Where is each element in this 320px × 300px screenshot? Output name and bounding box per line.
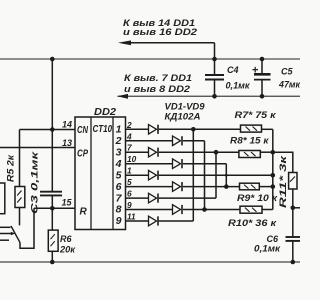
svg-text:К выв. 7 DD1: К выв. 7 DD1: [124, 73, 192, 83]
svg-text:и выв 16 DD2: и выв 16 DD2: [123, 27, 198, 37]
svg-text:9: 9: [127, 200, 132, 210]
svg-text:С3 0,1мк: С3 0,1мк: [30, 150, 41, 214]
svg-text:6: 6: [116, 181, 122, 193]
svg-text:+: +: [252, 65, 258, 77]
svg-text:2: 2: [115, 135, 122, 147]
svg-text:R5 2к: R5 2к: [6, 155, 16, 182]
svg-text:47мк: 47мк: [278, 80, 300, 90]
svg-text:R9* 10 к: R9* 10 к: [237, 193, 277, 203]
svg-text:11: 11: [127, 212, 136, 222]
svg-text:5: 5: [116, 169, 122, 181]
svg-text:С5: С5: [281, 67, 293, 77]
svg-text:15: 15: [61, 198, 72, 208]
svg-text:и выв 8 DD2: и выв 8 DD2: [124, 84, 191, 94]
svg-text:CT10: CT10: [93, 124, 113, 135]
svg-text:4: 4: [126, 131, 132, 141]
svg-text:R6: R6: [60, 234, 72, 244]
svg-text:6: 6: [127, 189, 132, 199]
svg-text:С6: С6: [267, 234, 279, 244]
svg-text:4: 4: [115, 158, 122, 170]
svg-text:С4: С4: [227, 65, 239, 75]
svg-text:5: 5: [127, 177, 132, 187]
svg-text:7: 7: [116, 192, 123, 204]
svg-text:VD1-VD9: VD1-VD9: [165, 102, 205, 112]
svg-text:0,1мк: 0,1мк: [254, 244, 280, 254]
svg-text:0,1мк: 0,1мк: [226, 81, 250, 91]
svg-text:14: 14: [62, 120, 72, 130]
svg-text:CP: CP: [77, 149, 88, 160]
svg-text:10: 10: [127, 154, 137, 164]
svg-text:9: 9: [116, 215, 122, 227]
svg-text:1: 1: [127, 166, 132, 176]
svg-text:DD2: DD2: [94, 107, 117, 118]
svg-text:20к: 20к: [59, 245, 75, 255]
svg-text:2: 2: [126, 120, 132, 130]
svg-text:1: 1: [116, 124, 122, 136]
svg-text:13: 13: [62, 138, 72, 148]
svg-text:8: 8: [116, 204, 122, 216]
svg-text:R10* 36 к: R10* 36 к: [228, 218, 277, 228]
svg-text:КД102А: КД102А: [165, 112, 201, 122]
svg-text:R: R: [80, 207, 88, 218]
svg-text:R11* 3к: R11* 3к: [278, 155, 288, 208]
svg-text:R7* 75 к: R7* 75 к: [235, 110, 277, 120]
svg-text:3: 3: [116, 146, 122, 158]
svg-text:7: 7: [127, 143, 132, 153]
svg-text:R8* 15 к: R8* 15 к: [230, 136, 269, 146]
svg-text:CN: CN: [77, 125, 89, 136]
